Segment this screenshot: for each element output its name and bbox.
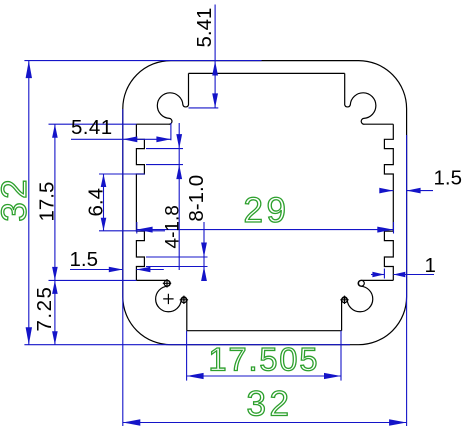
arrows 17.5: [52, 124, 58, 138]
dim line 17.5 / 7.25 vertical: [54, 124, 56, 345]
screw boss top-left: [136, 73, 188, 124]
ext line y=253.2 for 8-1.0: [146, 256, 208, 258]
profile outer contour: [123, 61, 407, 345]
dim line 5.41-left horizontal y=139.3: [71, 138, 171, 140]
dim line 1.5-left outside arrows y=269.5: [70, 269, 123, 271]
arrows 6.4: [101, 174, 107, 187]
ext line y=148.6 for 4-1.8: [146, 148, 183, 150]
svg-text:5.41: 5.41: [193, 8, 216, 48]
dim line 17.505 y=376: [187, 375, 341, 377]
svg-text:32: 32: [247, 385, 293, 424]
screw boss bottom-right: [342, 280, 394, 330]
svg-text:1: 1: [425, 254, 436, 277]
arrows 1.5-right: [379, 188, 393, 194]
dim+leader line 4-1.8 vertical x=179.2: [178, 123, 180, 270]
arrows 5.41-top: [212, 61, 218, 76]
centre mark bottom-left boss: [163, 294, 173, 304]
arrows 1-right: [372, 272, 384, 278]
ext line x=392 right for 29 dim: [393, 222, 395, 234]
ext line y=174 for 6.4 dim: [99, 173, 145, 175]
svg-text:29: 29: [244, 191, 290, 230]
ext line x=341 for 17.505: [340, 331, 342, 381]
arrows 5.41-left: [123, 136, 138, 142]
svg-text:17.505: 17.505: [209, 342, 320, 378]
svg-text:32: 32: [0, 176, 34, 222]
ext line x=186.6 for 17.505: [186, 331, 188, 381]
arrows 17.505: [187, 373, 204, 379]
inner bottom wall: [187, 330, 342, 332]
lip circle marks bottom-left boss: [164, 280, 170, 286]
dim+leader line 8-1.0 vertical x=202.5: [203, 222, 205, 275]
ext line bottom (y=344.7) for 32-left dim: [24, 344, 350, 346]
arrows 8-1.0: [201, 243, 207, 258]
svg-text:1.5: 1.5: [70, 248, 99, 271]
screw boss bottom-left: [136, 280, 186, 330]
ext line x=170.9 for 5.41-left: [170, 123, 172, 140]
svg-text:7.25: 7.25: [33, 286, 56, 332]
ext line x=136.6 for 29/1.5 dims: [136, 222, 138, 234]
dim line 5.41-top vertical x=215.1: [214, 5, 216, 108]
ext line right outer wall x=406.6: [406, 135, 408, 426]
arrows 1.5-left: [109, 267, 123, 273]
ext line y=230.8 for 6.4 dim: [99, 230, 165, 232]
dim line 29 horizontal y=229.6: [137, 229, 394, 231]
ext line left outer wall x=122.8: [122, 109, 124, 426]
svg-text:8-1.0: 8-1.0: [185, 175, 208, 222]
dim line 32-bottom y=422.5: [123, 422, 407, 424]
svg-text:6.4: 6.4: [85, 188, 108, 217]
arrows 4-1.8: [176, 134, 182, 149]
arrows 32-bottom: [123, 419, 141, 425]
inner right wall with teeth: [384, 124, 393, 280]
inner left wall with teeth: [136, 124, 144, 280]
dim line 1.5-right y=190.6: [380, 190, 393, 192]
ext line top (y=60.6) for 32-left dim: [24, 60, 261, 62]
inner top wall: [189, 72, 345, 74]
ext line y=107.9 for 5.41-top: [189, 107, 219, 109]
ext line y=262.1 for 8-1.0: [146, 266, 208, 268]
svg-text:1.5: 1.5: [434, 167, 462, 190]
ext line x=384.4 for 1-dim: [383, 269, 385, 279]
ext line y=124.2 for 17.5 dim: [49, 123, 137, 125]
dim line 32-left vertical: [28, 61, 30, 345]
svg-text:17.5: 17.5: [36, 182, 59, 222]
lip circle marks bottom-right boss: [342, 297, 348, 303]
arrows 32-left: [26, 61, 32, 79]
arrows 7.25: [52, 280, 58, 294]
svg-text:4-1.8: 4-1.8: [163, 205, 184, 248]
svg-text:5.41: 5.41: [71, 116, 113, 139]
ext line y=280.4 for 17.5/7.25 dims: [49, 279, 137, 281]
screw boss top-right: [345, 73, 394, 124]
ext line y=164.6 for 4-1.8: [146, 164, 183, 166]
dim line 1-right y=274: [371, 274, 384, 276]
dim line 6.4 vertical: [103, 174, 105, 231]
arrows 29: [137, 227, 153, 233]
